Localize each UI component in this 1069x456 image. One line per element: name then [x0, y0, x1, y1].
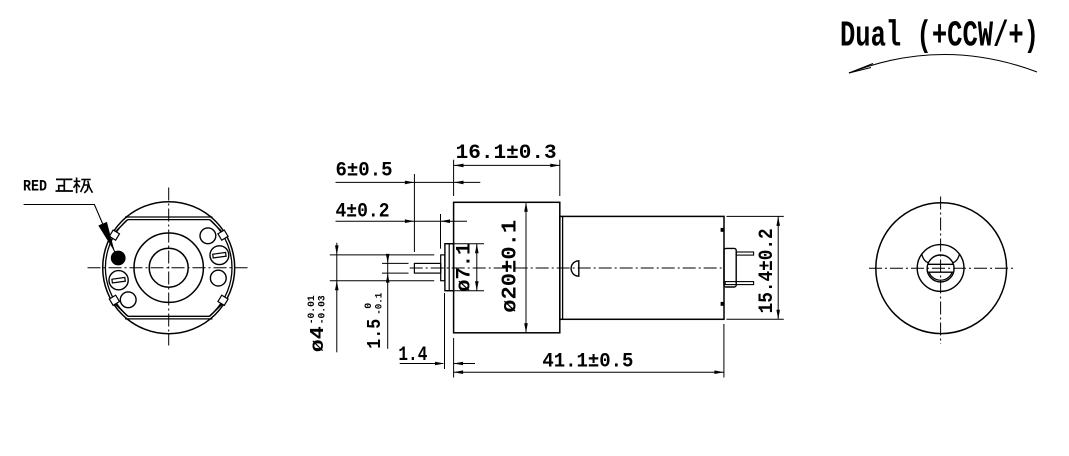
dimension 6±0.5	[336, 181, 481, 183]
bottom crescent arc	[929, 273, 952, 281]
terminal pin lower	[725, 282, 753, 285]
chamfer bottom-left	[115, 304, 127, 316]
output shaft flatted section	[414, 263, 440, 273]
extension line shaft shoulder	[440, 214, 442, 249]
extension line shaft tip	[413, 174, 415, 252]
top flat inner chord	[128, 219, 210, 221]
rotation arc arrow	[849, 54, 1037, 73]
solder tab lower	[721, 302, 724, 306]
top flat outer chord	[125, 216, 213, 218]
screw boss left	[109, 271, 128, 290]
left view vertical centerline	[168, 188, 170, 346]
extension line gearbox face down	[453, 338, 455, 378]
chamfer top-left	[115, 220, 127, 232]
bottom flat outer chord	[125, 318, 213, 320]
svg-text:1.4: 1.4	[398, 344, 427, 367]
hanzi JI (极)	[74, 178, 93, 194]
extension line o4 bottom	[330, 280, 434, 282]
left view horizontal centerline	[88, 267, 251, 269]
notch bottom-left	[109, 295, 119, 305]
right view horizontal centerline	[869, 267, 1014, 269]
extension line o7.1 bottom	[447, 290, 484, 292]
screw boss right	[210, 246, 229, 265]
wing arc right	[952, 254, 959, 263]
notch top-left	[109, 230, 119, 240]
svg-text:ø4: ø4	[307, 326, 329, 352]
hanzi ZHENG (正)	[56, 179, 73, 191]
leader arrowhead	[98, 222, 115, 252]
svg-text:6±0.5: 6±0.5	[336, 160, 393, 183]
arc arrowhead barb 1	[849, 64, 873, 74]
arc arrowhead barb 2	[849, 68, 871, 74]
svg-text:1.5: 1.5	[364, 319, 386, 349]
right view vertical centerline	[940, 197, 942, 345]
extension line boss left down	[444, 293, 446, 369]
extension line gearbox face up	[453, 160, 455, 196]
shaft slot line lower	[928, 271, 954, 273]
extension line motor bottom right	[727, 318, 784, 320]
screw slot right	[213, 252, 226, 258]
small hole lower-right	[210, 270, 226, 286]
svg-text:ø20±0.1: ø20±0.1	[500, 220, 523, 313]
extension line 1.5 bottom	[382, 272, 409, 274]
dimension 41.1±0.5	[454, 371, 724, 373]
dimension 1.4	[400, 363, 443, 365]
rear outer circle	[876, 203, 1007, 334]
solder tab upper	[721, 228, 724, 232]
leader line RED	[24, 205, 115, 253]
chamfer top-right	[210, 220, 222, 232]
svg-text:Dual (+CCW/+): Dual (+CCW/+)	[840, 16, 1039, 57]
shaft slot line upper	[928, 263, 954, 265]
svg-text:0: 0	[364, 303, 375, 309]
notch top-right	[218, 230, 228, 240]
middle circle	[134, 233, 203, 302]
svg-text:16.1±0.3: 16.1±0.3	[456, 142, 557, 165]
end cap	[724, 248, 736, 287]
middle view centerline	[410, 267, 724, 269]
screw slot left	[112, 277, 125, 283]
dimension o20±0.1	[525, 202, 527, 332]
dimension o4 tol	[336, 243, 338, 352]
rear boss circle	[917, 245, 964, 292]
dimension 1.5 tol	[387, 256, 389, 349]
motor front lip line	[562, 216, 564, 319]
bearing boss plate	[445, 244, 454, 291]
datum half-circle mark	[571, 261, 579, 276]
extension line o7.1 top	[447, 243, 484, 245]
mask bottom flat	[127, 316, 212, 333]
mask top flat	[127, 203, 212, 220]
extension line motor rear down	[723, 324, 725, 378]
wing arc left	[922, 254, 929, 263]
dimension 15.4±0.2	[777, 216, 779, 319]
extension line 1.5 top	[382, 262, 409, 264]
boss step line	[448, 244, 450, 291]
svg-text:4±0.2: 4±0.2	[336, 201, 390, 224]
svg-text:ø7.1: ø7.1	[454, 243, 477, 292]
svg-text:41.1±0.5: 41.1±0.5	[542, 350, 633, 373]
dimension 4±0.2	[336, 220, 468, 222]
inner body circle	[105, 204, 232, 331]
motor body	[560, 216, 724, 319]
chamfer bottom-right	[210, 304, 222, 316]
svg-text:-0.01: -0.01	[307, 295, 318, 324]
svg-text:-0.03: -0.03	[318, 295, 329, 324]
terminal pin upper	[736, 252, 753, 255]
extension line o4 top	[330, 254, 434, 256]
small hole bottom-left	[120, 292, 136, 308]
svg-text:-0.1: -0.1	[375, 293, 386, 315]
small hole top-right	[200, 228, 216, 244]
center bore circle	[149, 248, 188, 287]
red terminal dot (filled)	[111, 251, 126, 266]
dimension 16.1±0.3	[454, 164, 560, 166]
svg-text:15.4±0.2: 15.4±0.2	[756, 228, 779, 313]
rear bearing circle	[927, 255, 954, 282]
notch bottom-right	[218, 295, 228, 305]
bottom flat inner chord	[128, 315, 210, 317]
gearbox body	[454, 202, 560, 332]
extension line gearbox rear up	[559, 160, 561, 196]
extension line motor top right	[727, 215, 784, 217]
outer circle	[103, 202, 235, 334]
svg-text:RED: RED	[23, 178, 47, 196]
dimension o7.1	[476, 244, 478, 291]
shaft root (o4)	[441, 255, 445, 281]
